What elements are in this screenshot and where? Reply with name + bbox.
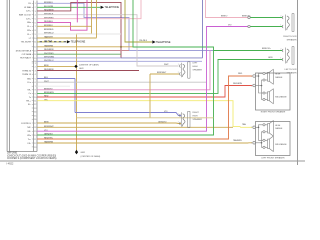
svg-text:RANGE: RANGE — [275, 76, 283, 79]
svg-text:2: 2 — [35, 7, 36, 9]
svg-text:10: 10 — [34, 38, 36, 40]
svg-text:MID-RANGE: MID-RANGE — [275, 95, 287, 98]
svg-text:BRN/RED: BRN/RED — [44, 29, 54, 31]
svg-text:TELEPHONE: TELEPHONE — [71, 41, 86, 44]
svg-text:I-4922: I-4922 — [7, 162, 14, 165]
svg-text:3: 3 — [35, 11, 36, 13]
svg-text:VIO: VIO — [228, 24, 232, 26]
svg-text:GNs: GNs — [27, 78, 31, 80]
svg-text:RED: RED — [238, 73, 243, 75]
svg-text:1: 1 — [280, 58, 281, 60]
svg-text:21: 21 — [34, 139, 36, 141]
svg-text:5: 5 — [35, 19, 36, 21]
svg-text:RIGHT FRONT SPEAKER: RIGHT FRONT SPEAKER — [261, 111, 286, 114]
svg-text:6: 6 — [35, 82, 36, 84]
svg-text:19: 19 — [34, 131, 36, 133]
svg-text:YEL/BLK: YEL/BLK — [139, 40, 148, 42]
svg-text:20: 20 — [34, 135, 36, 137]
svg-text:BRN/WHT: BRN/WHT — [157, 72, 167, 74]
svg-text:TAN/BRN: TAN/BRN — [233, 139, 242, 142]
svg-text:RANGE: RANGE — [275, 127, 283, 130]
svg-text:VRs: VRs — [27, 135, 31, 137]
svg-text:HOT/RALIT: HOT/RALIT — [20, 57, 32, 60]
svg-text:2: 2 — [35, 66, 36, 68]
svg-text:HIGH: HIGH — [193, 116, 199, 118]
svg-text:JWF1F8E: JWF1F8E — [7, 152, 18, 154]
svg-text:1: 1 — [35, 3, 36, 5]
svg-text:BRN/OR+: BRN/OR+ — [262, 48, 272, 50]
svg-text:Cs: Cs — [28, 93, 31, 95]
svg-text:FS-: FS- — [28, 143, 32, 145]
svg-text:22: 22 — [34, 143, 36, 145]
svg-text:4: 4 — [35, 15, 36, 17]
svg-text:17: 17 — [34, 123, 36, 125]
svg-text:8: 8 — [35, 90, 36, 92]
svg-text:(RODOMT BR A: (RODOMT BR A — [16, 49, 32, 52]
svg-text:7: 7 — [35, 26, 36, 28]
svg-text:HIGH: HIGH — [275, 74, 281, 76]
svg-text:TEL MUTE: TEL MUTE — [21, 42, 32, 44]
svg-text:SPEAKER: SPEAKER — [287, 38, 297, 41]
svg-text:8: 8 — [35, 30, 36, 32]
svg-text:2: 2 — [178, 72, 179, 74]
svg-text:RIGHT DOOR: RIGHT DOOR — [283, 36, 297, 38]
svg-text:(CENTER OF DASH): (CENTER OF DASH) — [79, 64, 99, 67]
svg-text:EAR CLOCK: EAR CLOCK — [19, 14, 32, 17]
svg-text:FLs: FLs — [28, 82, 31, 84]
svg-text:TELEPHONE: TELEPHONE — [105, 6, 120, 9]
svg-text:Ts: Ts — [29, 97, 31, 99]
svg-text:5: 5 — [35, 78, 36, 80]
svg-text:18: 18 — [34, 127, 36, 129]
svg-text:GER: GER — [81, 152, 86, 154]
svg-text:23: 23 — [34, 147, 36, 149]
svg-text:BRN/OR+: BRN/OR+ — [242, 15, 252, 17]
svg-text:1: 1 — [251, 76, 252, 78]
svg-text:2: 2 — [280, 16, 281, 18]
svg-text:WHT: WHT — [164, 64, 169, 66]
svg-text:(CHECKOUT) 2002-06 MINI COOPER: (CHECKOUT) 2002-06 MINI COOPER (R50/53) — [7, 155, 56, 157]
svg-text:9: 9 — [35, 34, 36, 36]
svg-text:7: 7 — [35, 86, 36, 88]
svg-text:COOPER S (COMPONENT LOCATION V: COOPER S (COMPONENT LOCATION VIEWS) — [7, 157, 57, 160]
svg-text:TAN: TAN — [242, 123, 246, 126]
svg-text:VR-: VR- — [27, 131, 31, 133]
svg-text:HIGH: HIGH — [193, 66, 199, 68]
svg-text:11: 11 — [34, 42, 36, 44]
svg-text:FL-: FL- — [28, 104, 31, 106]
svg-text:1: 1 — [178, 64, 179, 66]
svg-text:9: 9 — [35, 93, 36, 95]
svg-text:2: 2 — [251, 85, 252, 87]
svg-text:LF SAE: LF SAE — [24, 6, 32, 9]
svg-text:1: 1 — [178, 113, 179, 115]
svg-text:LEFT FRONT SPEAKER: LEFT FRONT SPEAKER — [261, 156, 285, 159]
svg-text:1: 1 — [35, 63, 36, 65]
svg-text:TERM 15: TERM 15 — [22, 74, 32, 76]
svg-text:CONTROL: CONTROL — [21, 123, 32, 125]
svg-text:SPEAKER: SPEAKER — [193, 69, 203, 72]
svg-text:12V+: 12V+ — [26, 19, 32, 21]
svg-text:2: 2 — [251, 143, 252, 145]
svg-text:14: 14 — [34, 54, 36, 56]
svg-text:FRs: FRs — [27, 30, 31, 32]
svg-text:SPEAKER: SPEAKER — [193, 118, 203, 121]
svg-text:GRN/VIO: GRN/VIO — [158, 121, 167, 123]
svg-text:12V+: 12V+ — [26, 11, 32, 13]
svg-text:BRN/O: BRN/O — [221, 15, 228, 17]
svg-text:TERM 30: TERM 30 — [22, 70, 32, 72]
svg-text:MID-RANGE: MID-RANGE — [275, 143, 287, 146]
svg-text:O/P DATA: O/P DATA — [22, 53, 32, 56]
svg-text:1: 1 — [280, 25, 281, 27]
svg-text:RED/BRN: RED/BRN — [233, 83, 243, 85]
svg-text:4: 4 — [35, 74, 36, 76]
svg-text:14: 14 — [34, 112, 36, 114]
svg-text:GNs: GNs — [27, 22, 31, 24]
svg-text:6: 6 — [35, 22, 36, 24]
svg-text:2: 2 — [280, 49, 281, 51]
svg-text:12: 12 — [34, 47, 36, 49]
svg-text:2: 2 — [178, 121, 179, 123]
svg-text:15: 15 — [34, 58, 36, 60]
svg-text:VIO: VIO — [164, 111, 168, 113]
svg-text:11: 11 — [34, 101, 36, 103]
svg-text:GER: GER — [79, 68, 84, 70]
svg-text:TELEPHONE: TELEPHONE — [156, 41, 171, 44]
svg-text:13: 13 — [34, 50, 36, 52]
svg-text:HIGH: HIGH — [275, 125, 281, 127]
svg-text:GRN: GRN — [268, 57, 273, 59]
svg-text:10: 10 — [34, 97, 36, 99]
svg-text:TEL+: TEL+ — [26, 101, 32, 103]
svg-text:3: 3 — [35, 70, 36, 72]
svg-text:1: 1 — [251, 127, 252, 129]
svg-text:15: 15 — [34, 115, 36, 117]
svg-text:RIGHT: RIGHT — [193, 112, 200, 114]
svg-text:13: 13 — [34, 108, 36, 110]
svg-text:(CENTER OF DASH): (CENTER OF DASH) — [81, 155, 101, 158]
svg-text:NR.: NR. — [27, 127, 31, 129]
svg-text:LEFT: LEFT — [193, 63, 199, 65]
svg-text:12: 12 — [34, 104, 36, 106]
svg-text:16: 16 — [34, 119, 36, 121]
svg-text:VR-: VR- — [27, 90, 31, 92]
svg-text:LEFT DOOR: LEFT DOOR — [285, 69, 297, 71]
